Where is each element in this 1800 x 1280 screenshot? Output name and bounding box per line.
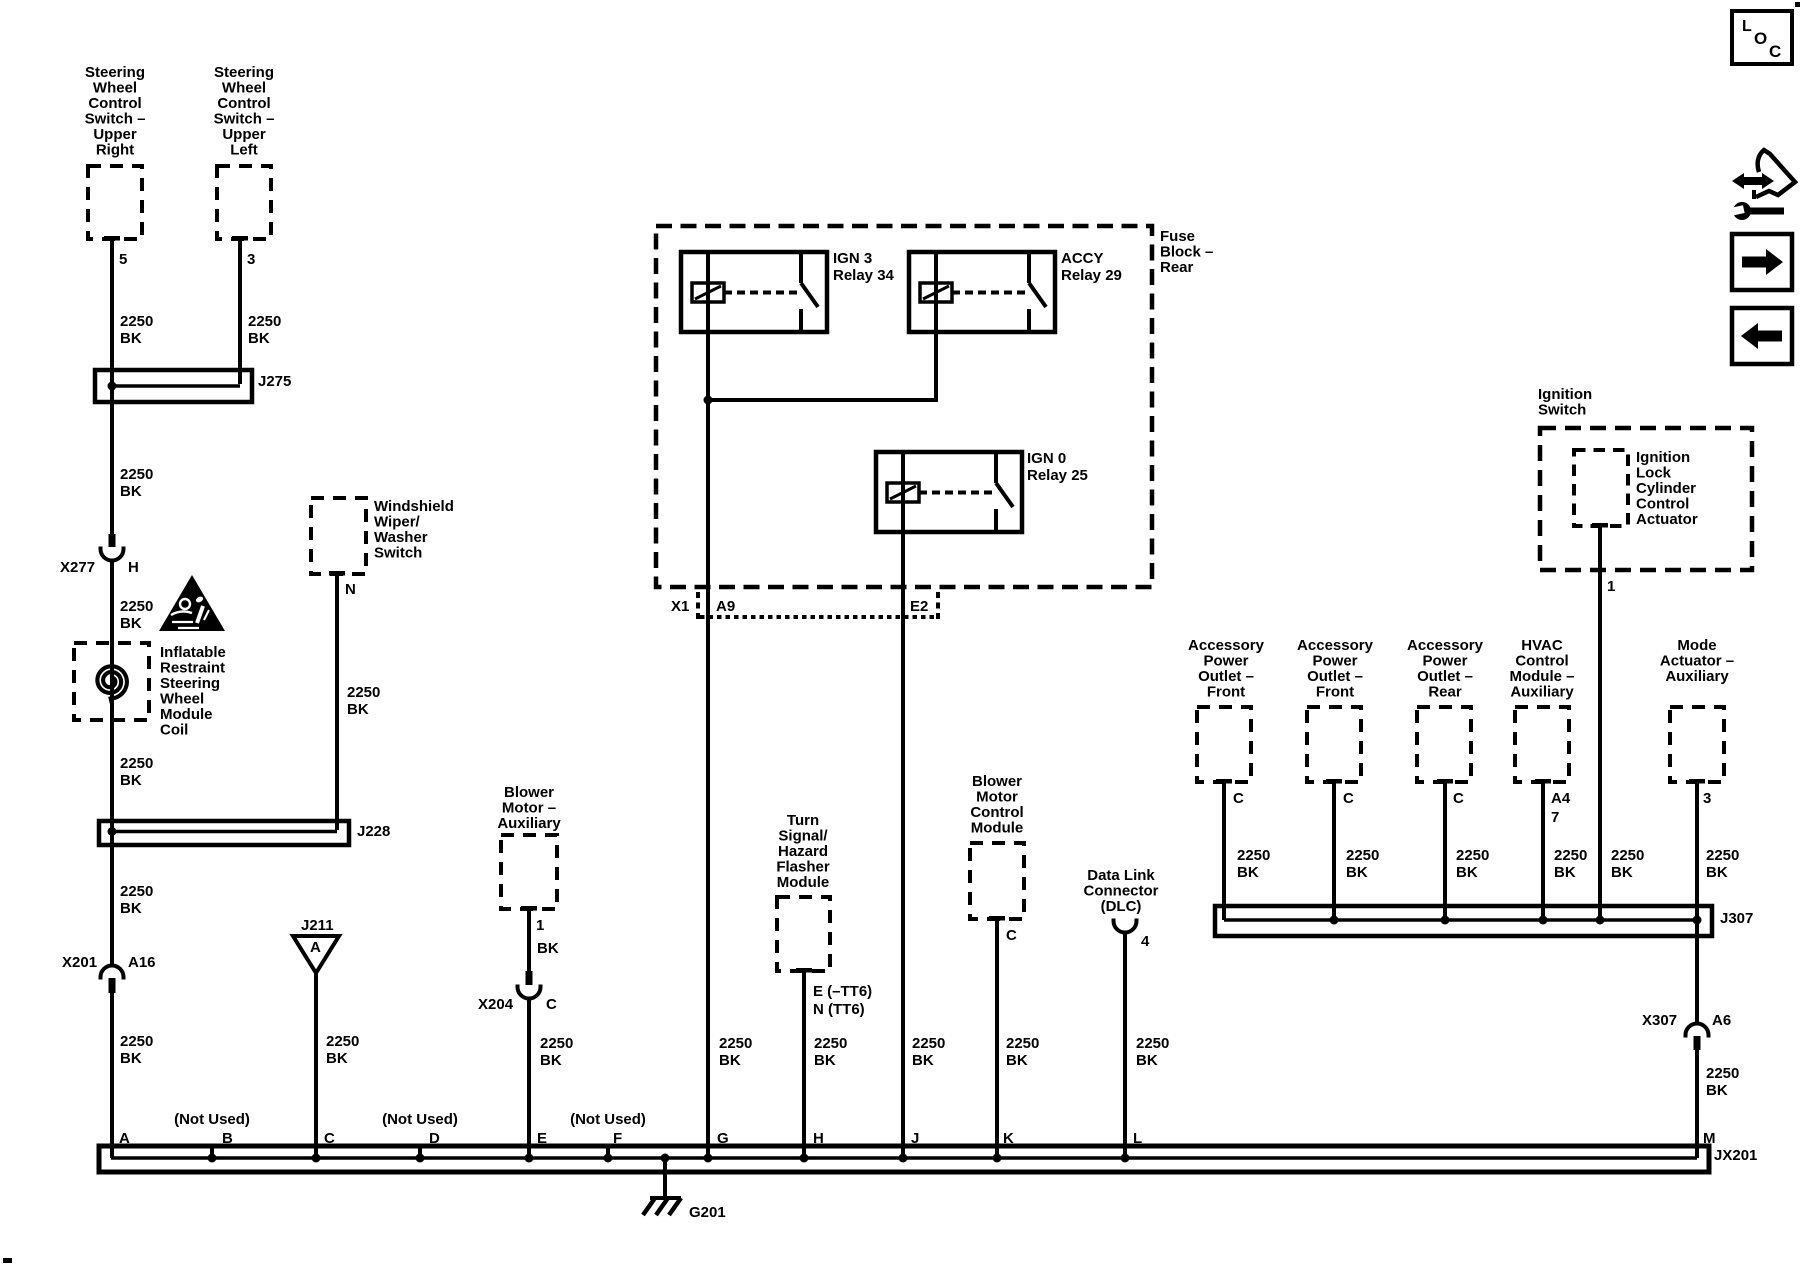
actuator box Mode Actuator - Auxiliary bbox=[1670, 707, 1724, 782]
junction dot pin E on JX201 bbox=[525, 1154, 534, 1163]
junction dot pin B on JX201 bbox=[208, 1154, 217, 1163]
svg-text:J228: J228 bbox=[357, 823, 390, 840]
svg-text:A9: A9 bbox=[716, 598, 735, 615]
junction dot pin D on JX201 bbox=[416, 1154, 425, 1163]
junction dot pin G on JX201 bbox=[704, 1154, 713, 1163]
wire 2250 BK from blower control module to ground bar pin K bbox=[995, 919, 999, 1158]
svg-text:C: C bbox=[1453, 790, 1464, 807]
svg-text:C: C bbox=[1233, 790, 1244, 807]
splice J307 bbox=[1215, 906, 1712, 936]
pin stub serif ignition actuator bbox=[1592, 523, 1608, 528]
connector Data Link Connector terminal 4 bbox=[1114, 919, 1137, 933]
svg-text:X201: X201 bbox=[62, 954, 97, 971]
svg-text:X204: X204 bbox=[478, 996, 514, 1013]
wire 2250 BK from HVAC module to J307 bbox=[1541, 782, 1545, 920]
svg-text:7: 7 bbox=[1551, 809, 1559, 826]
wire 2250 BK from outlet 2 to J307 bbox=[1332, 782, 1336, 920]
wire from IGN0 relay coil through X1 E2 to ground bar pin J bbox=[901, 530, 905, 1158]
page mark bottom-left bbox=[3, 1258, 12, 1263]
svg-text:C: C bbox=[1769, 42, 1781, 61]
wire 2250 BK from mode actuator through J307 to X307 bbox=[1695, 782, 1699, 1023]
svg-text:C: C bbox=[324, 1130, 335, 1147]
wire from JX201 to ground G201 bbox=[663, 1158, 667, 1198]
svg-text:J211: J211 bbox=[301, 917, 334, 934]
svg-text:JX201: JX201 bbox=[1714, 1147, 1757, 1164]
wire 2250 BK from X277 through SIR coil to J228 bbox=[110, 560, 114, 964]
junction dot pin H on JX201 bbox=[800, 1154, 809, 1163]
module box Turn Signal/Hazard Flasher Module bbox=[777, 897, 830, 971]
svg-text:A: A bbox=[310, 939, 321, 956]
wire 2250 BK from outlet 1 to J307 bbox=[1222, 782, 1226, 920]
svg-text:A: A bbox=[119, 1130, 130, 1147]
motor box Blower Motor - Auxiliary bbox=[501, 835, 557, 909]
pin stub serif flasher module bbox=[796, 968, 812, 973]
splice J275 bbox=[95, 370, 252, 402]
pin stub serif outlet3 bbox=[1437, 779, 1453, 784]
junction dot pin L on JX201 bbox=[1121, 1154, 1130, 1163]
svg-text:J275: J275 bbox=[258, 373, 291, 390]
service/diagnostics icon (double arrow and wrench) bbox=[1725, 150, 1795, 220]
svg-text:X1: X1 bbox=[671, 598, 689, 615]
svg-text:H: H bbox=[128, 559, 139, 576]
svg-text:B: B bbox=[222, 1130, 233, 1147]
outlet box Accessory Power Outlet - Rear bbox=[1417, 707, 1471, 782]
switch S1 Steering Wheel Control Switch - Upper Right (connector box) bbox=[88, 166, 142, 239]
connector X204 pin C (inline connector) bbox=[518, 971, 541, 999]
wire 2250 BK from S2 pin 3 into J275 bbox=[238, 239, 242, 384]
LOC navigation box icon bbox=[1732, 11, 1792, 64]
svg-text:E2: E2 bbox=[910, 598, 928, 615]
relay ACCY Relay 29 bbox=[909, 250, 1122, 332]
svg-text:D: D bbox=[429, 1130, 440, 1147]
connector X277 pin H (inline connector) bbox=[101, 534, 124, 561]
pin stub serif S2 bbox=[232, 236, 248, 241]
wire 2250 BK from ignition lock actuator to J307 bbox=[1598, 526, 1602, 920]
switch box Windshield Wiper/Washer Switch bbox=[311, 498, 366, 574]
wire BK from blower motor aux pin 1 to X204 bbox=[527, 909, 531, 971]
svg-text:C: C bbox=[546, 996, 557, 1013]
SIR warning triangle symbol bbox=[159, 575, 225, 631]
svg-text:1: 1 bbox=[1607, 578, 1615, 595]
module box Blower Motor Control Module bbox=[970, 843, 1024, 919]
svg-text:G: G bbox=[717, 1130, 729, 1147]
junction dot pin K on JX201 bbox=[993, 1154, 1002, 1163]
svg-text:IgnitionSwitch: IgnitionSwitch bbox=[1538, 386, 1592, 419]
connector X307 pin A6 (inline connector) bbox=[1686, 1024, 1709, 1051]
svg-text:(Not Used): (Not Used) bbox=[174, 1111, 250, 1128]
wire 2250 BK from wiper switch pin N to J228 bbox=[335, 574, 339, 830]
svg-text:3: 3 bbox=[1703, 790, 1711, 807]
svg-text:BK: BK bbox=[537, 940, 559, 957]
svg-text:K: K bbox=[1003, 1130, 1014, 1147]
coil symbol (spiral) of SIR steering wheel module coil bbox=[97, 666, 127, 704]
svg-text:BlowerMotor –Auxiliary: BlowerMotor –Auxiliary bbox=[497, 784, 561, 832]
relay IGN 3 Relay 34 bbox=[681, 250, 895, 332]
outlet box Accessory Power Outlet - Front (1) bbox=[1197, 707, 1251, 782]
svg-text:N (TT6): N (TT6) bbox=[813, 1001, 865, 1018]
ground symbol G201 bbox=[643, 1198, 681, 1215]
svg-text:A6: A6 bbox=[1712, 1012, 1731, 1029]
wire from IGN3 relay coil to junction and X1 A9 to ground bar pin G bbox=[706, 332, 710, 1158]
ground bus connector JX201 bbox=[99, 1146, 1709, 1172]
svg-text:3: 3 bbox=[247, 251, 255, 268]
Fuse Block - Rear (dashed outline) bbox=[656, 226, 1152, 587]
svg-text:O: O bbox=[1754, 29, 1767, 48]
svg-text:1: 1 bbox=[536, 917, 544, 934]
pin stub serif outlet1 bbox=[1216, 779, 1232, 784]
box Ignition Lock Cylinder Control Actuator bbox=[1574, 450, 1628, 526]
pin stub serif wiper switch bbox=[329, 571, 345, 576]
svg-text:L: L bbox=[1742, 18, 1752, 35]
wire 2250 BK from J211 to ground bar pin C bbox=[314, 973, 318, 1158]
svg-text:E (–TT6): E (–TT6) bbox=[813, 983, 872, 1000]
stub pin B (not used) bbox=[210, 1147, 214, 1158]
svg-text:G201: G201 bbox=[689, 1204, 726, 1221]
svg-text:J307: J307 bbox=[1720, 910, 1753, 927]
page mark top-right bbox=[1795, 2, 1800, 7]
junction dot pin F on JX201 bbox=[604, 1154, 613, 1163]
svg-text:X307: X307 bbox=[1642, 1012, 1677, 1029]
junction dot pin C on JX201 bbox=[312, 1154, 321, 1163]
pin stub serif outlet2 bbox=[1326, 779, 1342, 784]
svg-text:BlowerMotorControlModule: BlowerMotorControlModule bbox=[970, 773, 1023, 837]
junction dot pin J on JX201 bbox=[899, 1154, 908, 1163]
module box Inflatable Restraint Steering Wheel Module Coil bbox=[74, 643, 149, 720]
outlet box Accessory Power Outlet - Front (2) bbox=[1307, 707, 1361, 782]
wire 2250 BK from rear outlet to J307 bbox=[1443, 782, 1447, 920]
wire 2250 BK from DLC to ground bar pin L bbox=[1123, 933, 1127, 1158]
junction of IGN3/ACCY relay ground wires bbox=[704, 396, 713, 405]
forward arrow navigation box bbox=[1732, 234, 1792, 290]
svg-text:(Not Used): (Not Used) bbox=[382, 1111, 458, 1128]
relay IGN 0 Relay 25 bbox=[876, 450, 1088, 532]
pin stub serif S1 bbox=[104, 236, 120, 241]
switch box Ignition Switch (outer) bbox=[1540, 428, 1752, 570]
svg-text:4: 4 bbox=[1141, 933, 1150, 950]
svg-text:IgnitionLockCylinderControlAct: IgnitionLockCylinderControlActuator bbox=[1636, 449, 1698, 528]
wire 2250 BK from X204 to ground bar pin E bbox=[527, 997, 531, 1158]
pin stub serif HVAC bbox=[1535, 779, 1551, 784]
stub pin D (not used) bbox=[418, 1146, 422, 1158]
svg-text:F: F bbox=[613, 1130, 622, 1147]
junction dot pin ground lead on JX201 bbox=[661, 1154, 670, 1163]
svg-text:5: 5 bbox=[119, 251, 127, 268]
module box HVAC Control Module - Auxiliary bbox=[1515, 707, 1569, 782]
svg-text:A4: A4 bbox=[1551, 790, 1571, 807]
connector X201 pin A16 (inline connector) bbox=[101, 966, 124, 994]
stub pin F (not used) bbox=[606, 1146, 610, 1158]
svg-text:L: L bbox=[1133, 1130, 1142, 1147]
splice J211 (triangle symbol) pin A bbox=[293, 936, 339, 973]
svg-text:C: C bbox=[1343, 790, 1354, 807]
switch S2 Steering Wheel Control Switch - Upper Left (connector box) bbox=[217, 166, 271, 239]
pin stub serif mode actuator bbox=[1689, 779, 1705, 784]
svg-text:X277: X277 bbox=[60, 559, 95, 576]
splice J228 bbox=[99, 821, 349, 845]
pin stub serif blower control bbox=[989, 916, 1005, 921]
back arrow navigation box bbox=[1732, 308, 1792, 364]
svg-text:A16: A16 bbox=[128, 954, 156, 971]
wire 2250 BK from S1 pin 5 to X277 bbox=[110, 239, 114, 534]
svg-text:C: C bbox=[1006, 927, 1017, 944]
pin stub serif blower aux bbox=[521, 906, 537, 911]
svg-text:N: N bbox=[345, 581, 356, 598]
wire 2250 BK from X307 to ground bar pin M bbox=[1695, 1050, 1699, 1158]
svg-text:J: J bbox=[911, 1130, 919, 1147]
wire 2250 BK from flasher module to ground bar pin H bbox=[802, 971, 806, 1158]
svg-text:E: E bbox=[537, 1130, 547, 1147]
connector X1 (fuse block bottom) bbox=[698, 592, 938, 619]
wire from junction to ACCY relay coil bbox=[708, 332, 936, 400]
wire 2250 BK from X201 to ground bar pin A bbox=[110, 993, 114, 1158]
svg-text:(Not Used): (Not Used) bbox=[570, 1111, 646, 1128]
wire 2250 BK from J307 to X307 bbox=[1695, 936, 1699, 1024]
svg-text:H: H bbox=[813, 1130, 824, 1147]
